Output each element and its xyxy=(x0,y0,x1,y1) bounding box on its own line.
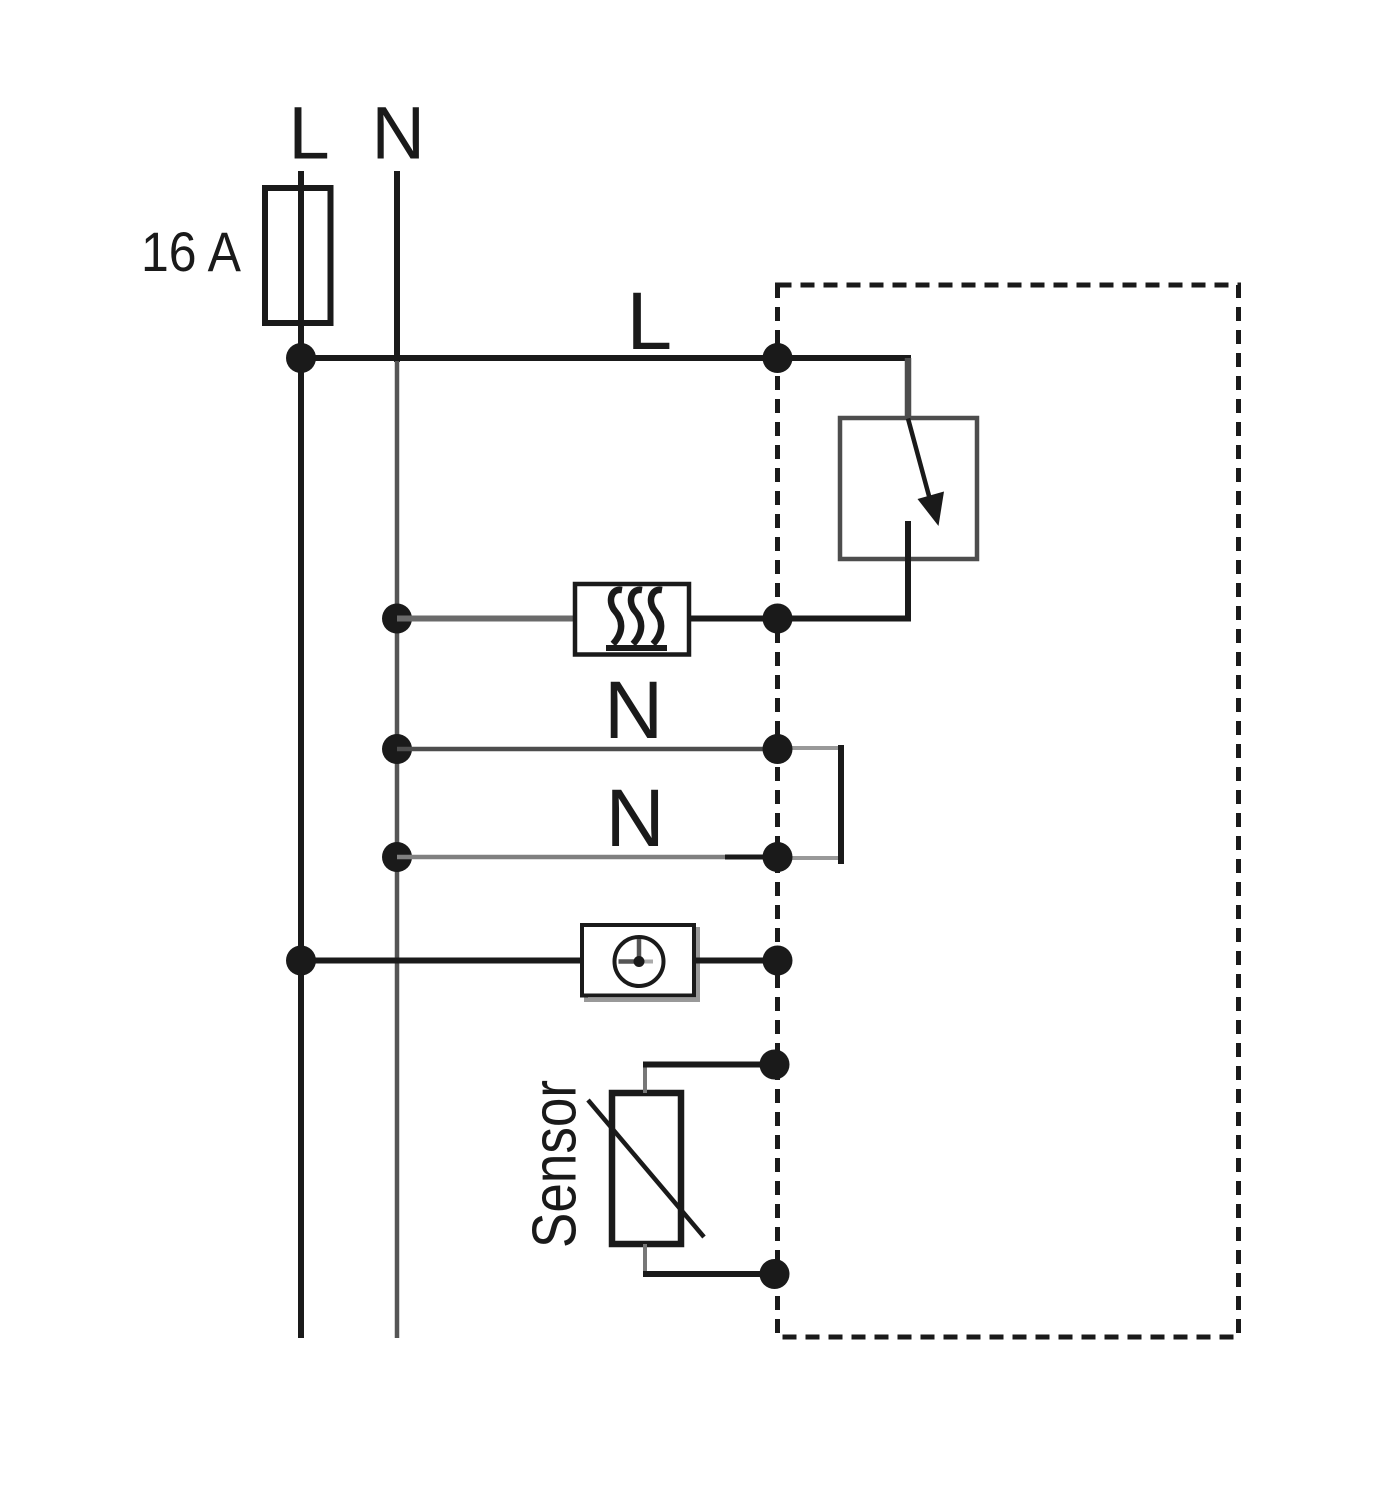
clock icon face xyxy=(615,937,664,986)
node: N1 at thermostat border xyxy=(763,734,793,764)
node: N1 on N bus xyxy=(382,734,412,764)
wire: sensor bottom horizontal xyxy=(643,1271,775,1277)
node: N heater junction on N bus xyxy=(382,604,412,634)
wire: drop from L wire to switch top xyxy=(905,358,912,420)
wire: N2 horizontal (black part) xyxy=(725,855,780,860)
wire: L horizontal to thermostat xyxy=(301,355,911,361)
sensor R1 (thermistor body) xyxy=(612,1093,681,1244)
node: L junction (fuse output) xyxy=(286,343,316,373)
clock icon minute hand xyxy=(637,939,642,962)
fuse F1 (16 A) xyxy=(265,188,331,323)
sensor diagonal stroke xyxy=(588,1100,704,1237)
svg-text:L: L xyxy=(627,276,673,367)
wire: N2 stub to bracket (grey) xyxy=(780,856,844,860)
clock icon hour hand xyxy=(619,959,640,964)
switch lever xyxy=(908,419,929,497)
wire: L bus vertical xyxy=(298,171,304,1338)
wire: sensor top horizontal xyxy=(643,1062,775,1068)
svg-text:L: L xyxy=(289,92,330,175)
thermostat enclosure (dashed outline) xyxy=(778,285,1239,1337)
svg-text:N: N xyxy=(606,773,665,864)
svg-text:N: N xyxy=(604,665,663,756)
wire: switch bottom contact xyxy=(905,521,911,619)
svg-text:N: N xyxy=(372,92,425,175)
wire: N2 horizontal (grey part) xyxy=(397,855,725,860)
wire: N1 stub to bracket (grey) xyxy=(779,746,844,750)
node: N2 on N bus xyxy=(382,842,412,872)
heater symbol: wavy line 1 xyxy=(611,590,622,644)
wire: clock to thermostat xyxy=(696,958,778,964)
node: clock junction on L bus xyxy=(286,946,316,976)
wire: L bus to clock xyxy=(301,958,583,964)
clock module shadow xyxy=(586,929,698,1000)
clock icon center xyxy=(634,956,645,967)
switch lever arrowhead xyxy=(918,492,945,527)
wire: sensor bottom stub xyxy=(643,1244,647,1274)
heater symbol: wavy line 2 xyxy=(631,590,642,644)
node: heater at thermostat border xyxy=(763,604,793,634)
svg-text:16 A: 16 A xyxy=(141,220,242,283)
clock icon hour hand stub (light) xyxy=(639,960,653,964)
node: L at thermostat border xyxy=(763,343,793,373)
wire: N bus vertical (lower grey) xyxy=(395,356,400,1338)
node: clock at thermostat border xyxy=(763,946,793,976)
svg-text:Sensor: Sensor xyxy=(521,1080,590,1248)
switch S1 (relay contact box) xyxy=(840,418,977,559)
heater symbol: wavy line 3 xyxy=(651,590,662,644)
clock module K1 (timer box) xyxy=(582,925,694,996)
heater element E1 (heating symbol box) xyxy=(575,584,689,655)
node: N2 at thermostat border xyxy=(763,842,793,872)
wire: N link bracket xyxy=(838,745,844,864)
heater symbol: base bar xyxy=(606,645,667,651)
wire: sensor top stub xyxy=(643,1065,647,1094)
node: sensor bottom at thermostat border xyxy=(760,1259,790,1289)
wire: N bus to heater element xyxy=(397,616,575,622)
node: sensor top at thermostat border xyxy=(760,1050,790,1080)
wire: N bus vertical (upper black) xyxy=(394,171,400,362)
wire: heater to switch xyxy=(689,616,911,622)
wire: N1 horizontal xyxy=(397,747,779,752)
